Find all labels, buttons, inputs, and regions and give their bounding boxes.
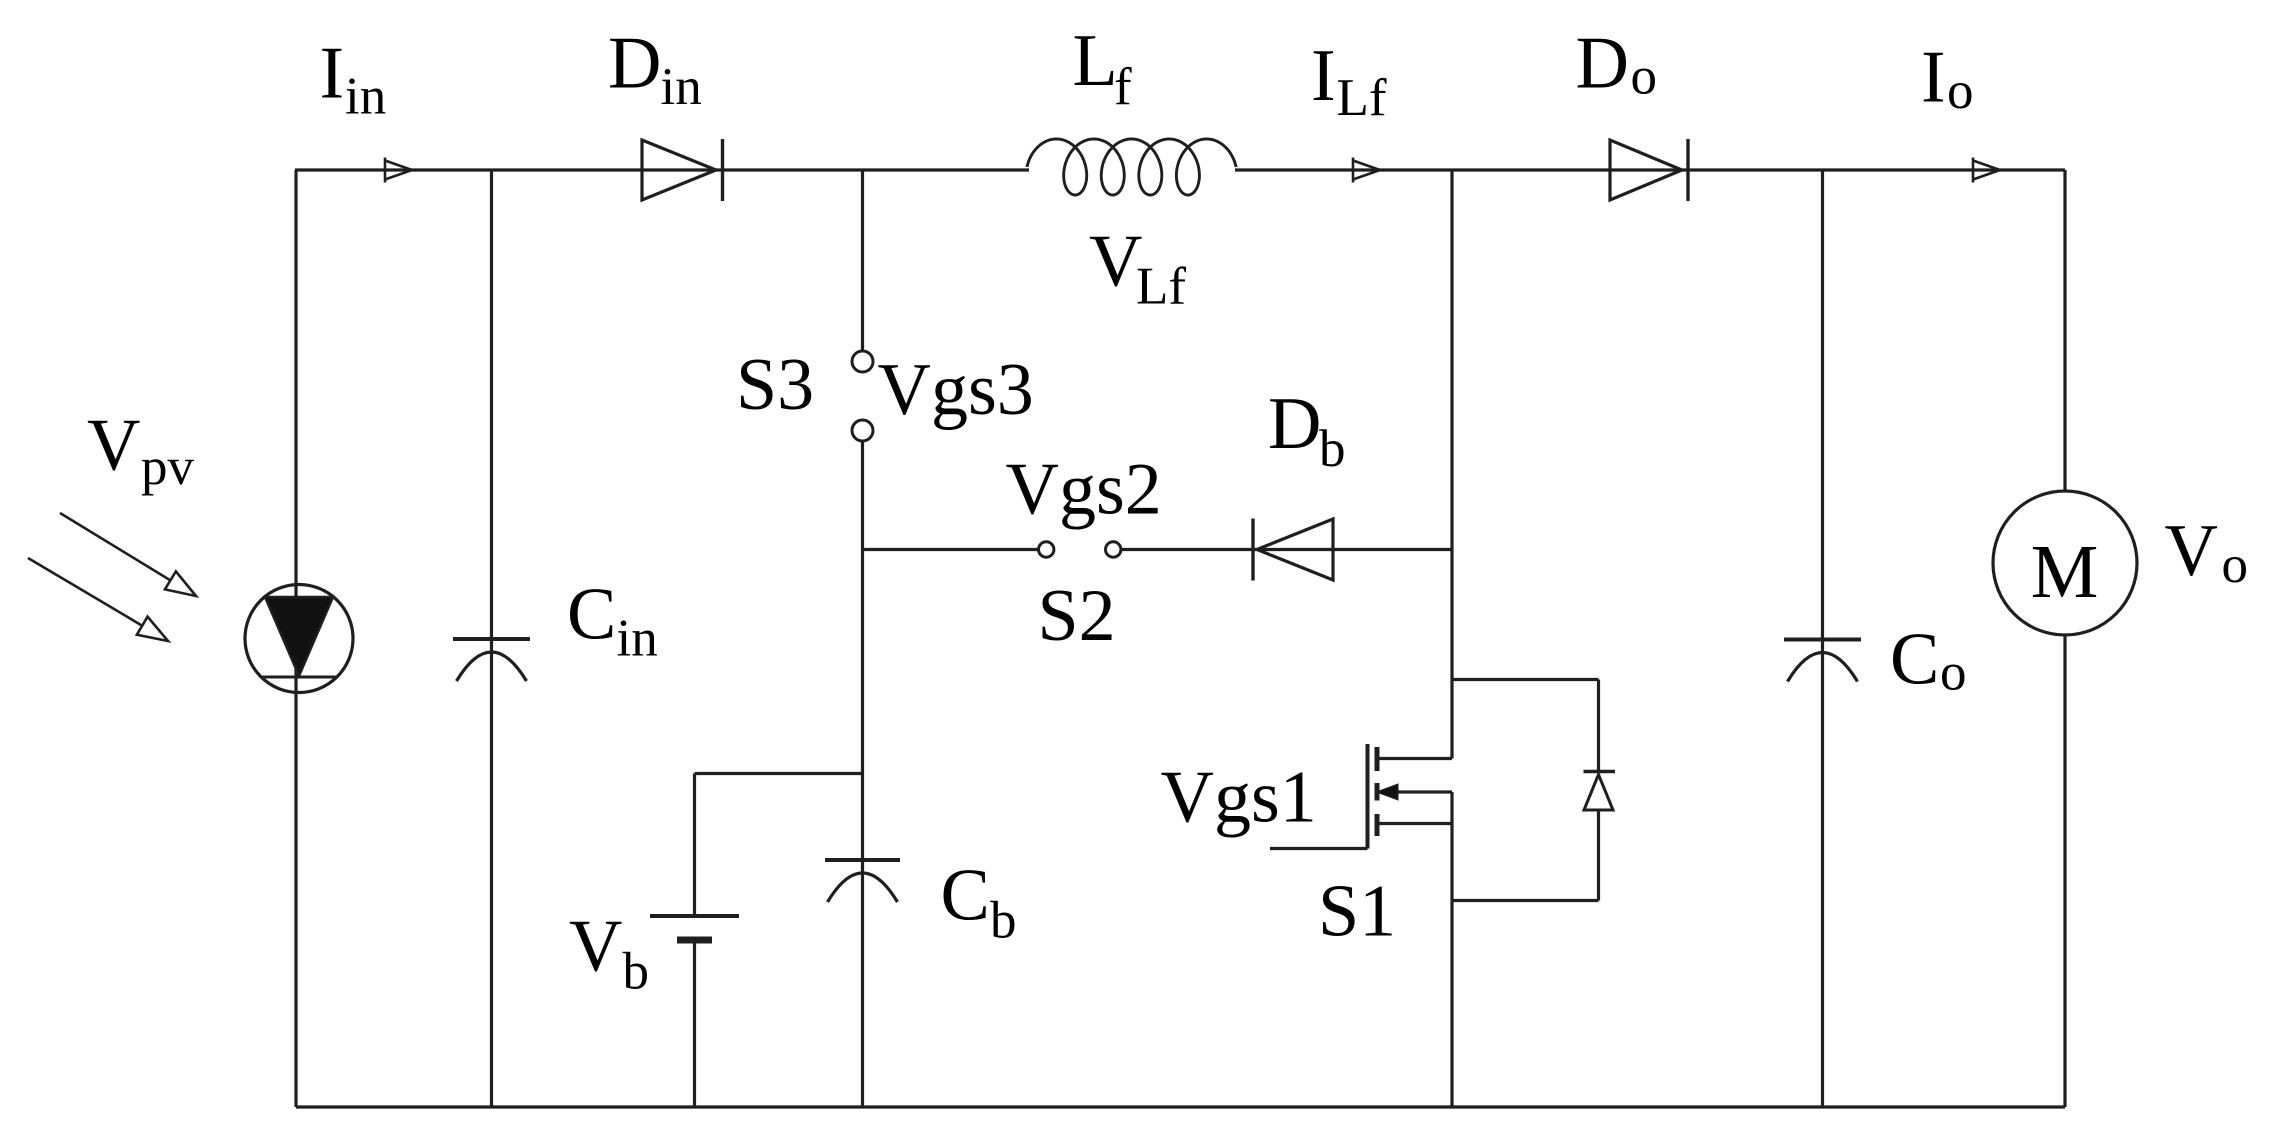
- svg-text:f: f: [1114, 58, 1132, 116]
- svg-text:o: o: [2222, 536, 2249, 594]
- svg-text:Vgs2: Vgs2: [1006, 449, 1162, 531]
- svg-text:L: L: [1073, 20, 1118, 102]
- svg-text:I: I: [1311, 35, 1336, 117]
- svg-text:o: o: [1947, 62, 1974, 120]
- svg-text:S3: S3: [736, 344, 814, 426]
- svg-text:b: b: [1319, 420, 1346, 478]
- svg-text:Vgs1: Vgs1: [1161, 757, 1317, 839]
- svg-text:Lf: Lf: [1337, 69, 1387, 127]
- svg-text:C: C: [567, 574, 616, 656]
- svg-text:C: C: [1890, 619, 1939, 701]
- svg-text:Lf: Lf: [1136, 258, 1186, 316]
- svg-text:D: D: [1576, 23, 1629, 105]
- svg-text:D: D: [1268, 383, 1321, 465]
- svg-text:S2: S2: [1038, 575, 1116, 657]
- svg-text:b: b: [990, 892, 1017, 950]
- svg-text:I: I: [320, 33, 345, 115]
- svg-text:D: D: [608, 23, 661, 105]
- svg-text:V: V: [1089, 221, 1142, 303]
- svg-text:C: C: [941, 855, 990, 937]
- svg-text:in: in: [617, 610, 658, 668]
- svg-text:M: M: [2031, 530, 2099, 614]
- svg-text:o: o: [1631, 48, 1658, 106]
- svg-text:Vgs3: Vgs3: [878, 349, 1034, 431]
- svg-text:V: V: [87, 405, 140, 487]
- svg-text:S1: S1: [1318, 871, 1396, 953]
- svg-text:V: V: [569, 906, 622, 988]
- svg-text:b: b: [623, 943, 650, 1001]
- svg-text:in: in: [661, 58, 702, 116]
- svg-text:pv: pv: [141, 438, 195, 496]
- svg-text:V: V: [2165, 510, 2218, 592]
- svg-text:I: I: [1921, 37, 1946, 119]
- svg-text:in: in: [345, 68, 386, 126]
- svg-text:o: o: [1940, 644, 1967, 702]
